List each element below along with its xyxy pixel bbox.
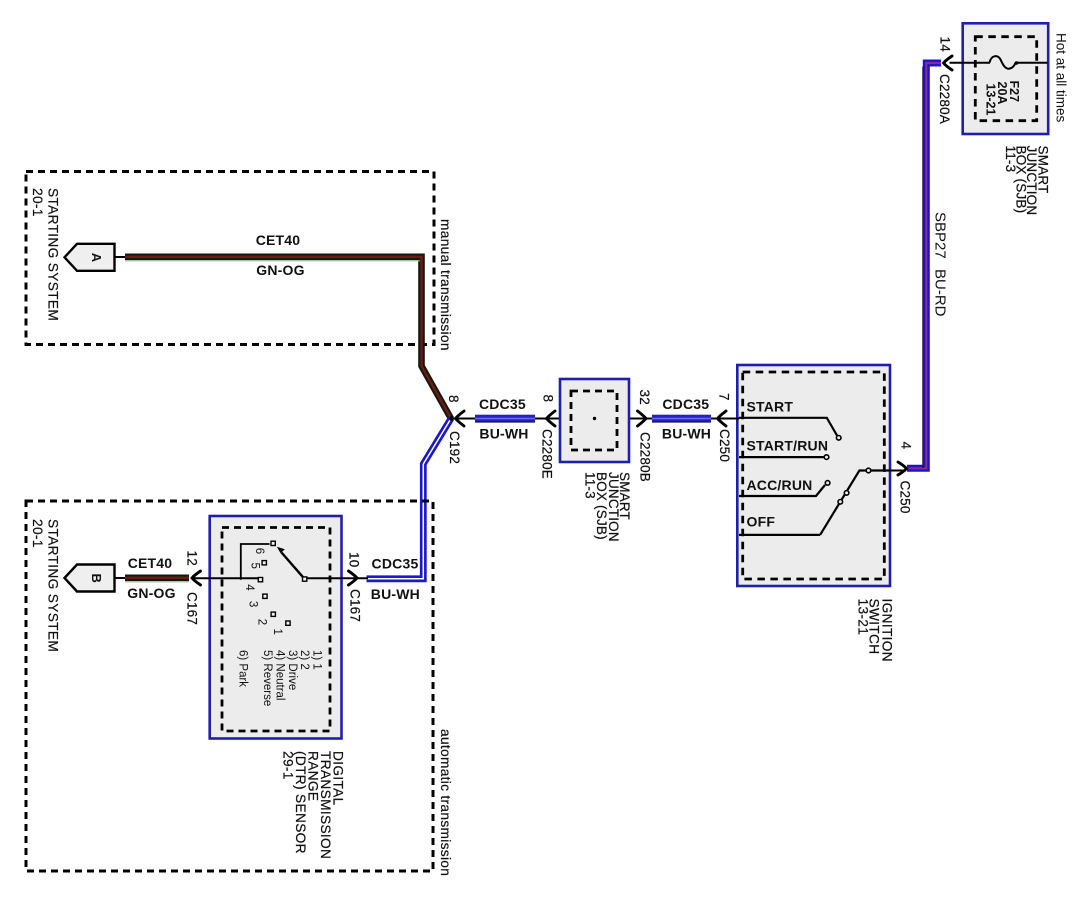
svg-text:13-21: 13-21 [855, 599, 870, 636]
svg-text:5: 5 [248, 562, 260, 568]
svg-text:20-1: 20-1 [30, 188, 45, 217]
svg-text:STARTING SYSTEM: STARTING SYSTEM [46, 188, 61, 321]
svg-text:CDC35: CDC35 [662, 396, 709, 412]
wire DTR output line [307, 577, 368, 579]
starting system box (automatic, bottom left) [26, 501, 433, 871]
wire CET40 GN-OG (automatic branch) [125, 578, 189, 582]
svg-text:GN-OG: GN-OG [256, 262, 304, 278]
switch wiper arm [820, 468, 890, 535]
svg-text:8: 8 [446, 395, 461, 403]
svg-text:3) Drive: 3) Drive [286, 650, 298, 690]
svg-text:CDC35: CDC35 [479, 396, 526, 412]
starting system box (manual, top left) [26, 172, 434, 345]
DTR wiper end square [303, 577, 307, 581]
svg-text:C192: C192 [447, 431, 462, 464]
svg-text:C2280A: C2280A [937, 74, 952, 124]
svg-text:manual transmission: manual transmission [438, 219, 453, 351]
DTR contact square 6 [262, 561, 266, 565]
svg-text:2: 2 [256, 619, 268, 625]
DTR legend [236, 650, 322, 706]
svg-text:C167: C167 [185, 592, 200, 625]
svg-text:4: 4 [899, 442, 914, 450]
DTR sensor box [210, 516, 342, 739]
svg-text:29-1: 29-1 [280, 751, 295, 780]
svg-text:12: 12 [185, 551, 200, 566]
wire ignition output to C250 [890, 470, 906, 472]
wire stub from A [114, 256, 126, 258]
wire CDC35 BU-WH (blue, junction to DTR) [367, 419, 452, 579]
svg-text:GN-OG: GN-OG [127, 585, 175, 601]
switch contact line OFF [739, 534, 820, 536]
DTR contact square 3 [263, 594, 267, 598]
wire stub from B [114, 577, 126, 579]
svg-text:4: 4 [243, 584, 255, 591]
switch contact line START [739, 418, 841, 440]
svg-text:11-3: 11-3 [1003, 146, 1018, 173]
switch contact line ACC/RUN [739, 481, 830, 496]
connector arrow 14 / C2280A [944, 56, 953, 70]
svg-text:10: 10 [346, 552, 361, 567]
svg-text:7: 7 [717, 393, 732, 401]
svg-text:6) Park: 6) Park [236, 650, 248, 687]
label SMART JUNCTION BOX (SJB) 11-3 (top right) [1003, 146, 1050, 216]
svg-text:CET40: CET40 [256, 232, 301, 248]
svg-text:ACC/RUN: ACC/RUN [747, 477, 813, 493]
connector arrow 8 / C192 [456, 411, 465, 426]
label IGNITION SWITCH 13-21 [855, 599, 894, 663]
svg-text:STARTING SYSTEM: STARTING SYSTEM [46, 519, 61, 652]
svg-text:4) Neutral: 4) Neutral [274, 650, 286, 701]
svg-text:13-21: 13-21 [983, 84, 997, 116]
switch contact line START/RUN [739, 455, 829, 460]
svg-text:5) Reverse: 5) Reverse [261, 650, 273, 706]
smart junction box (middle) [560, 379, 629, 462]
svg-text:A: A [89, 253, 104, 263]
fuse box F27 (SJB) outline [963, 23, 1048, 134]
svg-text:C250: C250 [717, 429, 732, 462]
svg-text:BU-WH: BU-WH [662, 425, 711, 441]
svg-text:32: 32 [637, 390, 652, 405]
svg-text:Hot at all times: Hot at all times [1054, 33, 1069, 123]
svg-text:BU-RD: BU-RD [932, 269, 949, 317]
junction node C192 [449, 416, 454, 421]
svg-text:BU-WH: BU-WH [371, 586, 420, 602]
svg-text:1) 1: 1) 1 [310, 650, 322, 670]
DTR internal riser wire [241, 544, 270, 580]
svg-text:CET40: CET40 [128, 555, 173, 571]
svg-text:6: 6 [253, 548, 265, 554]
svg-text:SBP27: SBP27 [932, 212, 949, 259]
connector arrow 7 / C250 (ignition left) [718, 411, 727, 426]
svg-text:START: START [747, 399, 794, 415]
svg-text:C250: C250 [898, 481, 913, 514]
connector arrow 10 / C167 [349, 571, 358, 585]
connector B pentagon [65, 565, 115, 592]
svg-text:2) 2: 2) 2 [298, 650, 310, 670]
svg-text:B: B [89, 574, 104, 583]
svg-text:8: 8 [541, 395, 556, 403]
DTR contact square 1 [286, 621, 290, 625]
connector arrow 12 / C167 [192, 571, 201, 585]
connector arrow 32 / C2280B (right of SJB) [638, 411, 647, 426]
DTR contact square 2 [271, 612, 275, 616]
svg-text:3: 3 [247, 601, 259, 607]
svg-text:START/RUN: START/RUN [747, 437, 829, 453]
fuse F27 element wire [950, 56, 1048, 68]
svg-text:14: 14 [938, 37, 953, 53]
wire bus line (C192 to ignition) [451, 418, 739, 420]
svg-text:C2280B: C2280B [638, 432, 653, 482]
svg-text:C2280E: C2280E [540, 429, 555, 479]
wire SBP27 BU-RD (blue with red stripe) [907, 63, 941, 468]
svg-text:BU-WH: BU-WH [479, 425, 528, 441]
label DIGITAL TRANSMISSION RANGE (DTR) SENSOR 29-1 [280, 751, 345, 859]
wire CDC35 BU-WH bar (left of SJB) [475, 415, 535, 423]
connector A pentagon [65, 244, 115, 271]
connector arrow 8 / C2280E (left of SJB) [547, 411, 556, 426]
label STARTING SYSTEM 20-1 (top) [30, 188, 60, 321]
svg-text:C167: C167 [347, 589, 362, 622]
svg-text:1: 1 [271, 628, 283, 634]
fuse value label F27 20A 13-21 [983, 81, 1020, 116]
DTR wiper arm [277, 547, 305, 579]
label SMART JUNCTION BOX (SJB) 11-3 (middle) [583, 472, 633, 542]
ignition switch box [737, 365, 890, 586]
wire CDC35 BU-WH bar (right of SJB) [652, 415, 711, 423]
DTR pivot contact square (6 top) [271, 541, 275, 545]
svg-text:20-1: 20-1 [30, 519, 45, 548]
label STARTING SYSTEM 20-1 (bottom) [30, 519, 60, 652]
svg-text:11-3: 11-3 [583, 472, 598, 499]
connector arrow 4 / C250 (right) [898, 462, 907, 475]
wire CET40 GN-OG (manual branch) [125, 257, 451, 419]
svg-text:OFF: OFF [747, 514, 776, 530]
DTR contact square 4 [258, 578, 262, 582]
wire DTR input line [192, 577, 259, 579]
svg-text:CDC35: CDC35 [372, 556, 419, 572]
svg-text:automatic transmission: automatic transmission [438, 729, 453, 876]
